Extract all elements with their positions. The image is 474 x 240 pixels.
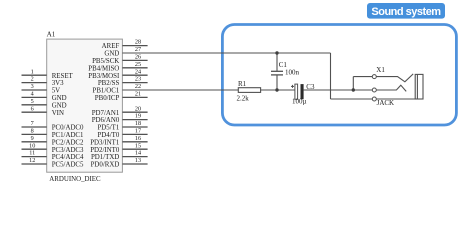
junction: C1 bottom on signal wire (275, 88, 278, 91)
pin 14 (PD1/TXD) (91, 150, 148, 162)
wire: GND net from pin 27 to C1/jack (horizontal) (122, 52, 330, 54)
Sound system title label (367, 3, 445, 19)
wire: C1 lower lead (276, 75, 278, 90)
pin 18 (PD5/T1) (97, 120, 147, 132)
pin 28 (AREF) (102, 39, 148, 51)
pin 2 (3V3) (22, 76, 65, 88)
IC A1 designator (47, 30, 56, 38)
pin 16 (PD3/INT1) (90, 135, 147, 147)
pin 8 (PC1/ADC1) (22, 128, 85, 140)
pin 11 (PC4/ADC4) (22, 150, 85, 162)
svg-text:5V: 5V (52, 88, 60, 95)
svg-text:R1: R1 (238, 80, 247, 88)
svg-text:27: 27 (135, 46, 141, 53)
pin 21 (PB0/ICP) (95, 91, 148, 103)
svg-text:JACK: JACK (377, 99, 395, 107)
pin 10 (PC3/ADC3) (22, 142, 85, 154)
svg-text:16: 16 (135, 135, 141, 142)
pin 27 (GND) (104, 46, 141, 58)
svg-text:PC2/ADC2: PC2/ADC2 (52, 139, 84, 146)
svg-text:24: 24 (135, 68, 141, 75)
pin 12 (PC5/ADC5) (22, 157, 85, 169)
wire: C3 to jack node (304, 89, 373, 91)
pin 3 (5V) (22, 83, 61, 95)
svg-text:17: 17 (135, 128, 141, 135)
svg-text:PB2/SS: PB2/SS (98, 80, 120, 87)
wire: jack tip feed vertical (352, 77, 354, 90)
svg-text:11: 11 (29, 150, 35, 157)
svg-text:9: 9 (31, 135, 34, 142)
svg-text:6: 6 (31, 105, 34, 112)
pin 25 (PB4/MISO) (88, 61, 147, 73)
svg-text:PD7/AN1: PD7/AN1 (92, 110, 120, 117)
svg-text:PC4/ADC4: PC4/ADC4 (52, 154, 84, 161)
svg-text:ARDUINO_DIEC: ARDUINO_DIEC (49, 176, 101, 183)
svg-text:2.2k: 2.2k (237, 94, 250, 102)
svg-text:PD3/INT1: PD3/INT1 (90, 139, 120, 146)
wire: GND net vertical drop (330, 53, 332, 99)
svg-text:PB4/MISO: PB4/MISO (88, 65, 119, 72)
svg-text:GND: GND (52, 102, 67, 109)
svg-text:PB1/OC1: PB1/OC1 (92, 88, 119, 95)
svg-text:AREF: AREF (102, 43, 120, 50)
pin 9 (PC2/ADC2) (22, 135, 85, 147)
pin 22 (PB1/OC1) (92, 83, 141, 95)
svg-text:100n: 100n (285, 68, 300, 76)
svg-text:C3: C3 (306, 83, 315, 91)
svg-text:Sound system: Sound system (371, 6, 441, 18)
svg-text:VIN: VIN (52, 110, 64, 117)
pin 7 (PC0/ADC0) (22, 120, 85, 132)
svg-text:RESET: RESET (52, 73, 74, 80)
pin 13 (PD0/RXD) (91, 157, 148, 169)
svg-text:PD1/TXD: PD1/TXD (91, 154, 119, 161)
svg-text:8: 8 (31, 128, 34, 135)
svg-text:13: 13 (135, 157, 141, 164)
svg-text:PD5/T1: PD5/T1 (97, 125, 119, 132)
svg-text:26: 26 (135, 54, 141, 61)
svg-text:PB5/SCK: PB5/SCK (92, 58, 119, 65)
capacitor C1 100n (271, 61, 300, 76)
svg-text:GND: GND (104, 51, 119, 58)
pin 19 (PD6/AN0) (92, 113, 148, 125)
pin 17 (PD4/T0) (97, 128, 147, 140)
wire: C1 upper lead (276, 53, 278, 71)
svg-text:25: 25 (135, 61, 141, 68)
svg-text:GND: GND (52, 95, 67, 102)
connector X1 audio jack (372, 66, 423, 107)
svg-text:14: 14 (135, 150, 141, 157)
wire: jack tip feed horizontal (353, 76, 372, 78)
pin 4 (GND) (22, 91, 67, 103)
svg-text:3: 3 (31, 83, 34, 90)
svg-text:2: 2 (31, 76, 34, 83)
svg-text:1: 1 (31, 68, 34, 75)
svg-text:12: 12 (29, 157, 35, 164)
svg-text:18: 18 (135, 120, 141, 127)
wire: R1 to C3 (C1 tap node) (261, 89, 295, 91)
svg-text:X1: X1 (376, 66, 385, 74)
pin 15 (PD2/INT0) (90, 142, 147, 154)
pin 1 (RESET) (22, 68, 74, 80)
svg-text:PC5/ADC5: PC5/ADC5 (52, 162, 84, 169)
svg-text:PD0/RXD: PD0/RXD (91, 162, 120, 169)
svg-text:PD6/AN0: PD6/AN0 (92, 117, 120, 124)
junction: jack tip/ring split (352, 88, 355, 91)
pin 6 (VIN) (22, 105, 64, 117)
IC A1 (ARDUINO_DIEC) body (47, 39, 123, 172)
svg-text:PD4/T0: PD4/T0 (97, 132, 119, 139)
capacitor C3 100u polarized (291, 83, 315, 106)
svg-text:28: 28 (135, 39, 141, 46)
svg-text:PC1/ADC1: PC1/ADC1 (52, 132, 84, 139)
wire: GND net to jack sleeve contact (331, 98, 373, 100)
svg-text:22: 22 (135, 83, 141, 90)
svg-text:7: 7 (31, 120, 34, 127)
svg-text:5: 5 (31, 98, 34, 105)
svg-text:4: 4 (31, 91, 34, 98)
junction: C1 top on GND wire (275, 51, 278, 54)
svg-text:PD2/INT0: PD2/INT0 (90, 147, 120, 154)
resistor R1 2.2k (237, 80, 261, 102)
pin 26 (PB5/SCK) (92, 54, 148, 66)
pin 24 (PB3/MOSI) (88, 68, 147, 80)
wire: signal from pin 22 (PB1/OC1) to R1 (122, 89, 238, 91)
svg-text:PC3/ADC3: PC3/ADC3 (52, 147, 84, 154)
sound system boundary box (222, 25, 456, 126)
svg-text:19: 19 (135, 113, 141, 120)
pin 23 (PB2/SS) (98, 76, 148, 88)
svg-text:3V3: 3V3 (52, 80, 64, 87)
svg-text:PC0/ADC0: PC0/ADC0 (52, 125, 84, 132)
pin 5 (GND) (22, 98, 67, 110)
svg-text:PB0/ICP: PB0/ICP (95, 95, 120, 102)
svg-text:23: 23 (135, 76, 141, 83)
IC A1 value label (49, 176, 101, 183)
svg-text:21: 21 (135, 91, 141, 98)
svg-text:10: 10 (29, 142, 35, 149)
svg-text:PB3/MOSI: PB3/MOSI (88, 73, 120, 80)
svg-text:100µ: 100µ (292, 98, 307, 106)
svg-text:15: 15 (135, 142, 141, 149)
svg-text:20: 20 (135, 105, 141, 112)
pin 20 (PD7/AN1) (92, 105, 148, 117)
svg-text:A1: A1 (47, 30, 56, 38)
